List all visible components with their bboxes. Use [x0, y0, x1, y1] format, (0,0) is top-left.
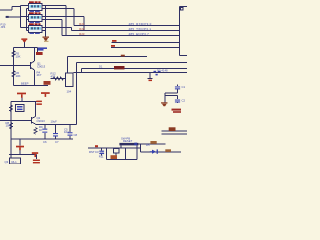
- svg-text:C9013: C9013: [37, 64, 46, 68]
- svg-text:R11: R11: [99, 155, 104, 159]
- svg-text:10K: 10K: [16, 74, 21, 78]
- svg-text:C2: C2: [182, 99, 186, 103]
- svg-text:R21: R21: [79, 22, 85, 26]
- svg-text:104: 104: [67, 89, 72, 93]
- svg-text:D1: D1: [99, 65, 103, 69]
- svg-text:C7: C7: [55, 140, 59, 144]
- svg-text:D5: D5: [146, 143, 150, 147]
- svg-text:485_TXD/P3.1: 485_TXD/P3.1: [129, 27, 152, 31]
- svg-text:485_RXD/P3.0: 485_RXD/P3.0: [129, 22, 152, 26]
- svg-text:BEEP: BEEP: [21, 82, 29, 86]
- svg-text:1K: 1K: [39, 128, 43, 132]
- svg-text:10uF: 10uF: [51, 120, 58, 124]
- svg-text:485_EN/P3.7: 485_EN/P3.7: [129, 32, 150, 36]
- svg-text:4K7: 4K7: [37, 73, 42, 77]
- svg-text:C1: C1: [182, 85, 186, 89]
- svg-text:C8: C8: [74, 133, 78, 137]
- svg-text:C6: C6: [43, 140, 47, 144]
- svg-text:104: 104: [64, 130, 69, 134]
- svg-text:C9013: C9013: [37, 119, 46, 123]
- svg-text:RST: RST: [89, 150, 95, 154]
- svg-text:10K: 10K: [16, 54, 21, 58]
- svg-text:R22: R22: [79, 27, 85, 31]
- svg-text:R23: R23: [79, 32, 85, 36]
- svg-text:10K: 10K: [6, 123, 11, 127]
- svg-text:Q3: Q3: [5, 160, 9, 164]
- svg-text:D2 4148: D2 4148: [157, 69, 168, 73]
- svg-text:470: 470: [51, 74, 56, 78]
- svg-text:JP4: JP4: [1, 25, 6, 29]
- svg-text:RL1: RL1: [12, 160, 18, 164]
- svg-text:RESET: RESET: [123, 139, 133, 143]
